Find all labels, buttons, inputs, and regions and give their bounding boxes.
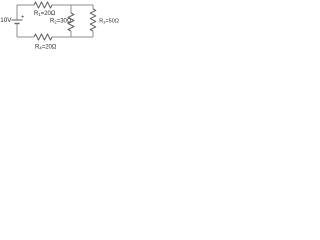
svg-text:R1=20Ω: R1=20Ω (34, 11, 56, 17)
wire bottom from node B to right corner (71, 36, 93, 38)
wire bottom from R4 to node B (52, 36, 71, 38)
battery V1 long plate (12, 19, 23, 21)
wire top from battery to R1 (17, 4, 34, 6)
wire left vertical battery top lead (16, 5, 18, 20)
wire top from R1 to node A (52, 4, 71, 6)
resistor R4 zigzag (34, 34, 52, 40)
svg-text:R3=50Ω: R3=50Ω (99, 18, 119, 24)
wire R3 top lead (92, 5, 94, 9)
battery V1 short plate (15, 23, 20, 25)
wire R2 bottom lead (70, 31, 72, 37)
wire R3 bottom lead (92, 31, 94, 37)
wire top from node A to right corner (71, 4, 93, 6)
wire bottom from battery to R4 (17, 36, 34, 38)
wire left vertical battery bottom lead (16, 24, 18, 38)
resistor R3 zigzag (90, 9, 96, 31)
svg-text:+: + (21, 15, 24, 21)
svg-text:R4=20Ω: R4=20Ω (35, 44, 57, 50)
resistor R2 zigzag (68, 13, 74, 31)
svg-text:R2=30Ω: R2=30Ω (50, 18, 72, 24)
svg-text:10V: 10V (0, 17, 12, 24)
resistor R1 zigzag (34, 2, 52, 8)
wire R2 top lead (70, 5, 72, 13)
